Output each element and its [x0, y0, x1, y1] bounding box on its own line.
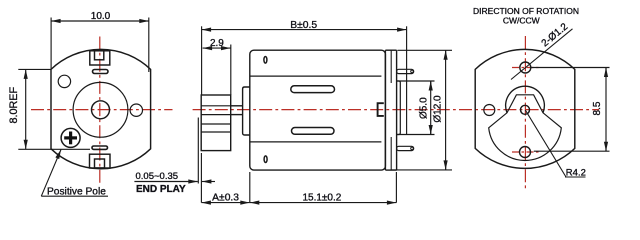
terminal top [397, 69, 414, 73]
can crimp edge [384, 50, 386, 170]
can vent slot bottom [292, 128, 335, 135]
eccentric weight [489, 95, 562, 161]
motor front outline [51, 49, 151, 168]
positive pole plus symbol [64, 132, 77, 145]
crimp tab bottom [264, 156, 267, 163]
motor back outline [475, 49, 575, 168]
shaft between weight and bearing [231, 105, 243, 107]
top terminal [95, 51, 104, 60]
centerline vertical right view [524, 36, 526, 190]
shaft hole [521, 105, 530, 114]
dimension B±0.5 [202, 26, 407, 134]
end play extension line [197, 118, 199, 184]
dimension 10.0 [51, 18, 149, 73]
svg-text:8.0REF: 8.0REF [8, 86, 20, 123]
end play right arrow [202, 181, 215, 183]
weight internal line 1 [201, 105, 231, 107]
hole left [484, 105, 495, 116]
svg-text:END PLAY: END PLAY [136, 184, 186, 195]
hole upper-left [58, 75, 70, 87]
bottom terminal slot [92, 146, 108, 149]
svg-text:2.9: 2.9 [210, 38, 224, 49]
svg-text:R4.2: R4.2 [566, 168, 586, 179]
dimension Ø5.0 [397, 81, 435, 135]
svg-text:DIRECTION OF ROTATION: DIRECTION OF ROTATION [473, 6, 579, 16]
centerline horizontal middle+right view [193, 109, 599, 111]
end cap bottom edge [385, 169, 396, 171]
eccentric weight side profile [201, 95, 231, 151]
positive pole marker circle [61, 128, 80, 147]
svg-text:B±0.5: B±0.5 [290, 20, 317, 31]
svg-text:A±0.3: A±0.3 [212, 192, 239, 203]
front bearing boss [243, 87, 250, 135]
dimension 8.0REF [18, 69, 90, 149]
svg-text:10.0: 10.0 [91, 11, 111, 22]
crimp tab top [264, 57, 267, 64]
bearing boss circle [73, 82, 128, 137]
bottom terminal [95, 159, 105, 168]
svg-text:8.5: 8.5 [592, 101, 603, 115]
can flat line bottom [250, 141, 382, 143]
terminal bottom [397, 146, 414, 150]
svg-text:Ø12.0: Ø12.0 [432, 95, 443, 123]
can vent slot top [291, 86, 335, 93]
end cap top edge [385, 49, 396, 51]
top terminal slot [93, 70, 109, 74]
weight internal line 3 [201, 123, 231, 125]
dimension A±0.3 and 15.1±0.2 [201, 153, 396, 203]
label 2-Ø1.2 [511, 29, 573, 80]
dimension Ø12.0 [391, 50, 452, 170]
leader underline [41, 195, 108, 197]
bearing dome arc [506, 86, 545, 113]
terminal top hole [411, 70, 414, 73]
can flat line top [250, 75, 382, 77]
svg-text:Ø5.0: Ø5.0 [419, 97, 430, 119]
motor can body [250, 50, 386, 170]
centerline horizontal left view [31, 109, 173, 111]
end cap step lower [390, 137, 392, 170]
end cap bearing boss [397, 81, 401, 135]
svg-text:CW/CCW: CW/CCW [503, 16, 540, 26]
centerline through top hole right view [512, 67, 539, 69]
end cap step upper [390, 50, 392, 83]
svg-text:0.05~0.35: 0.05~0.35 [136, 171, 179, 182]
hole top [520, 62, 531, 73]
label R4.2 [525, 110, 585, 177]
dimension 8.5 [532, 68, 610, 152]
dimension 2.9 [203, 45, 231, 96]
commutator end detail [378, 103, 384, 116]
hole right [130, 104, 142, 116]
end cap face [396, 50, 398, 170]
shaft hole circle [92, 101, 110, 119]
top terminal housing [90, 51, 110, 65]
hole bottom [520, 147, 531, 158]
centerline vertical left view [99, 37, 101, 184]
weight internal line 4 [201, 131, 231, 133]
terminal bottom hole [411, 147, 414, 150]
centerline through bottom hole right view [512, 151, 539, 153]
weight internal line 2 [201, 114, 231, 116]
svg-text:15.1±0.2: 15.1±0.2 [302, 192, 341, 203]
bottom terminal housing [90, 154, 111, 168]
end play leader with arrow [134, 181, 197, 183]
leader to plus marker [41, 150, 61, 197]
